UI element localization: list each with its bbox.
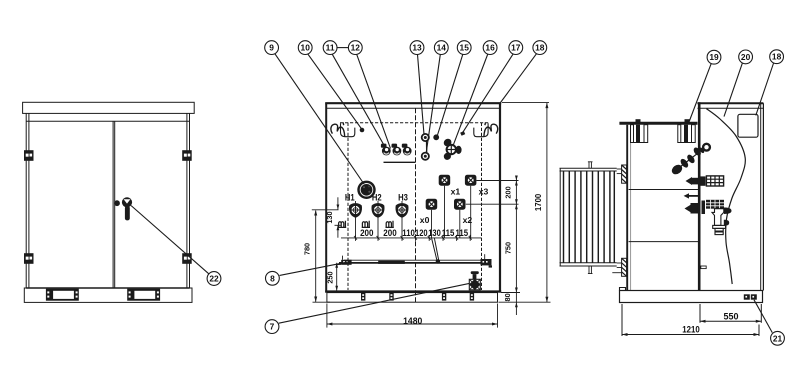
- bottom-left extension: [313, 301, 331, 303]
- stem H3: [401, 201, 403, 238]
- leader 7: [279, 283, 470, 323]
- 1480 extension left: [326, 304, 328, 328]
- door key handle: [122, 197, 132, 220]
- MV bushing horizontal: [686, 176, 724, 186]
- svg-text:x0: x0: [420, 215, 430, 225]
- internal cable curve: [706, 109, 745, 284]
- stem H2: [377, 201, 379, 238]
- svg-text:x3: x3: [479, 187, 489, 197]
- svg-text:17: 17: [511, 43, 521, 53]
- svg-text:H1: H1: [345, 193, 355, 203]
- radiator drain stub: [612, 272, 621, 274]
- busbar left clamp: [337, 256, 352, 268]
- base vent slot right: [127, 289, 160, 301]
- skid slot bar 4: [470, 293, 474, 301]
- svg-text:13: 13: [412, 43, 422, 53]
- svg-text:22: 22: [209, 274, 219, 284]
- svg-text:130: 130: [428, 228, 441, 238]
- cabinet right wall: [499, 103, 501, 292]
- nameplate: [738, 114, 758, 137]
- svg-text:7: 7: [270, 322, 275, 332]
- cabinet body left wall: [25, 113, 27, 288]
- bottom extension to 1700: [499, 301, 551, 303]
- svg-text:21: 21: [773, 333, 783, 343]
- dim 1210 extensions: [621, 304, 623, 336]
- leader 14: [426, 55, 440, 153]
- cabinet right wall: [760, 103, 762, 290]
- svg-text:550: 550: [724, 311, 739, 322]
- cabinet top: [697, 102, 763, 104]
- balloon 16: [483, 41, 497, 55]
- svg-text:120: 120: [415, 228, 428, 238]
- svg-text:130: 130: [325, 211, 334, 223]
- skid slot bar 1: [361, 293, 365, 301]
- bottom chained dimension line: [341, 237, 482, 239]
- svg-text:18: 18: [535, 43, 545, 53]
- door frame right: [186, 113, 188, 288]
- svg-text:200: 200: [383, 228, 396, 238]
- bolt component 21: [744, 294, 757, 299]
- inner panel dashed top: [340, 122, 490, 124]
- leader 20: [724, 63, 742, 116]
- balloon 9: [265, 41, 279, 55]
- busbar thick segment: [378, 261, 405, 264]
- balloon 18b: [770, 50, 784, 64]
- svg-text:9: 9: [269, 43, 274, 53]
- cable reel ring 1: [381, 144, 391, 156]
- dim 1210 line: [622, 333, 759, 336]
- HV terminal H1: [349, 203, 362, 217]
- LV insulator x0: [426, 199, 438, 210]
- core clamp left: [631, 119, 648, 142]
- core clamp right: [678, 119, 695, 142]
- panel screw dot: [360, 128, 365, 133]
- svg-text:18: 18: [772, 52, 782, 62]
- balloon 14: [434, 41, 448, 55]
- balloon 8: [266, 271, 280, 285]
- leader 15: [438, 54, 463, 135]
- LV insulator x2: [454, 199, 466, 210]
- hinge bottom-right: [182, 253, 192, 264]
- svg-text:10: 10: [301, 43, 311, 53]
- stem x1: [444, 186, 446, 238]
- leader 11: [332, 54, 385, 146]
- door split right: [114, 121, 116, 288]
- gauge ring bottom: [422, 153, 429, 160]
- busbar main: [339, 262, 492, 264]
- link line between rings: [426, 141, 428, 153]
- base left cap: [620, 288, 626, 291]
- door frame left: [28, 113, 30, 288]
- cabinet top cap: [23, 102, 195, 113]
- svg-text:80: 80: [503, 293, 512, 301]
- small earth terminal arrow: [684, 193, 698, 198]
- stem x3: [470, 186, 472, 238]
- skid base: [327, 293, 498, 303]
- svg-text:115: 115: [442, 228, 455, 238]
- LV cable termination: [712, 209, 729, 235]
- balloon 13: [410, 41, 424, 55]
- drain valve: [469, 271, 481, 290]
- skid slot bar 2: [389, 293, 393, 301]
- 1480 extension right: [497, 304, 499, 328]
- right chained dim line: [515, 176, 517, 315]
- svg-text:8: 8: [270, 273, 275, 283]
- balloon 22: [207, 272, 221, 286]
- extension line x3 row: [476, 180, 518, 182]
- inner panel dashed left: [347, 123, 349, 290]
- hinge top-right: [182, 150, 192, 161]
- leader 8: [280, 262, 350, 276]
- inner panel dashed right: [481, 123, 483, 290]
- skid slot bar 3: [442, 293, 446, 301]
- dim ticks: [356, 235, 471, 241]
- dim 550 extensions: [699, 304, 701, 323]
- leader 21: [754, 300, 772, 333]
- radiator bottom pipe: [588, 266, 593, 274]
- stem x0: [431, 210, 433, 238]
- shelf line under rings: [384, 161, 416, 163]
- door lock dot: [114, 200, 120, 206]
- dim 1700 line: [545, 103, 548, 303]
- svg-text:110: 110: [402, 228, 415, 238]
- balloon 15: [457, 41, 471, 55]
- radiator flange top: [617, 165, 627, 183]
- balloon 19: [707, 50, 721, 64]
- svg-text:H3: H3: [398, 193, 408, 203]
- svg-text:1700: 1700: [534, 193, 543, 211]
- base vent slot left: [46, 289, 79, 301]
- leader 22: [131, 206, 209, 274]
- link 11-12: [337, 47, 349, 49]
- cable reel ring 3: [402, 144, 412, 156]
- door split left: [112, 121, 114, 288]
- LV insulator x1: [439, 175, 451, 186]
- balloon 18: [533, 41, 547, 55]
- svg-text:11: 11: [326, 43, 335, 53]
- small gauge pocket: [460, 131, 465, 136]
- neutral link lines to busbar: [432, 238, 437, 260]
- balloon 7: [265, 320, 279, 334]
- balloon 10: [298, 41, 312, 55]
- svg-text:250: 250: [325, 271, 334, 283]
- tank left wall: [626, 125, 628, 291]
- leader 12: [357, 54, 391, 149]
- balloon 12: [348, 41, 362, 55]
- radiator top header: [560, 167, 617, 169]
- radiator bottom header: [560, 262, 617, 264]
- LV bushing horizontal: [685, 200, 732, 214]
- leader 13: [418, 55, 425, 135]
- door bottom rail: [26, 287, 189, 289]
- leader 9: [275, 53, 365, 184]
- busbar upper line: [344, 259, 492, 261]
- mounting clip mid2: [386, 221, 394, 228]
- lifting hook left: [331, 122, 355, 136]
- svg-text:1480: 1480: [403, 316, 422, 327]
- radiator left cap: [559, 168, 561, 266]
- svg-text:200: 200: [360, 228, 373, 238]
- cabinet left wall: [698, 102, 701, 290]
- pressure relief 3-lobe device: [442, 137, 461, 161]
- mounting clip left: [338, 221, 346, 228]
- hinge bottom-left: [24, 253, 34, 264]
- cabinet top inner line: [327, 107, 499, 109]
- leader 18b: [756, 63, 774, 115]
- busbar junction dot: [436, 259, 440, 263]
- top extension to 1700: [502, 102, 549, 104]
- balloon 11: [323, 41, 337, 55]
- left datum line: [312, 209, 339, 211]
- svg-text:20: 20: [741, 52, 751, 62]
- cabinet left wall: [325, 103, 327, 292]
- hinge top-left: [24, 150, 34, 161]
- tank top bar: [619, 122, 697, 125]
- HV bushing diagonal: [670, 144, 710, 177]
- small knob dot: [433, 134, 439, 140]
- svg-text:200: 200: [503, 186, 512, 198]
- svg-text:750: 750: [503, 242, 512, 254]
- cabinet top edge: [325, 102, 501, 104]
- svg-text:x1: x1: [451, 187, 461, 197]
- tank stiffener upper: [629, 189, 700, 191]
- dim 130 line vertical: [335, 197, 342, 237]
- leader 19: [689, 64, 711, 122]
- stem H1: [355, 201, 357, 238]
- dim 1480 line: [327, 323, 498, 326]
- mounting clip mid1: [362, 221, 370, 228]
- leader 16: [453, 54, 488, 146]
- transformer base: [620, 291, 763, 303]
- svg-text:115: 115: [456, 228, 469, 238]
- radiator fins: [564, 171, 615, 263]
- stem x2: [459, 210, 461, 238]
- HV terminal H2: [371, 203, 384, 217]
- svg-text:16: 16: [485, 43, 495, 53]
- leader 10: [308, 54, 363, 130]
- door top rail: [26, 120, 189, 122]
- gauge ring top: [422, 134, 429, 141]
- svg-text:12: 12: [351, 43, 361, 53]
- cable reel ring 2: [392, 144, 402, 156]
- tank stiffener lower: [629, 241, 700, 243]
- svg-text:780: 780: [303, 243, 312, 255]
- svg-text:19: 19: [709, 52, 719, 62]
- svg-text:14: 14: [437, 43, 447, 53]
- radiator flange bottom: [617, 258, 627, 276]
- svg-text:15: 15: [460, 43, 470, 53]
- oil level dial: [357, 181, 375, 199]
- dim 550 line: [700, 320, 761, 323]
- HV terminal H3: [395, 203, 408, 217]
- cabinet bottom edge: [325, 290, 501, 292]
- LV insulator x3: [465, 175, 477, 186]
- dim 780 line: [315, 211, 317, 303]
- busbar right clamp: [481, 254, 493, 267]
- extension line x2 row: [466, 203, 519, 205]
- radiator top pipe: [588, 162, 593, 169]
- dim 250 line: [335, 263, 338, 291]
- balloon 20: [739, 50, 753, 64]
- svg-text:1210: 1210: [682, 325, 700, 336]
- cable clamp tick: [701, 266, 706, 269]
- balloon 21: [771, 331, 785, 345]
- leader 17: [463, 54, 514, 133]
- 80 top extension: [501, 292, 520, 294]
- leader 18: [500, 53, 537, 103]
- cabinet body right wall: [189, 113, 191, 288]
- center dashed line: [415, 108, 417, 302]
- base frame: [24, 288, 192, 302]
- balloon 17: [509, 41, 523, 55]
- lifting hook right: [474, 122, 498, 136]
